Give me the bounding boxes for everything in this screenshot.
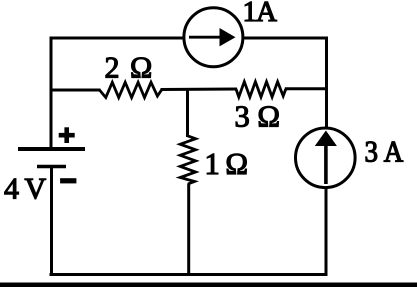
- label 4 V: [5, 179, 46, 199]
- current source I2 arrow: [324, 144, 328, 184]
- current source I1 arrow: [189, 36, 222, 39]
- wire right vertical lower: [325, 186, 328, 276]
- wire middle horizontal right segment: [285, 87, 328, 90]
- resistor R3 1ohm vertical zigzag: [180, 136, 195, 184]
- wire middle vertical lower: [187, 184, 190, 277]
- label 3 ohm: [236, 106, 279, 126]
- wire right vertical upper: [325, 37, 328, 131]
- label 2 ohm: [106, 58, 151, 78]
- wire middle horizontal center segment: [161, 88, 238, 92]
- label 1A: [245, 2, 277, 21]
- resistor R2 3ohm zigzag: [236, 82, 286, 97]
- bottom rule bar: [0, 283, 417, 287]
- wire left vertical upper: [50, 37, 53, 150]
- label 1 ohm: [207, 154, 246, 174]
- wire left vertical lower: [50, 167, 53, 277]
- wire bottom horizontal: [50, 273, 328, 276]
- battery V1 short plate: [37, 165, 66, 169]
- label 3 A: [366, 142, 403, 162]
- current source I2 3A circle: [296, 128, 356, 188]
- battery V1 long plate: [18, 147, 85, 151]
- battery plus sign: [59, 127, 75, 143]
- wire top horizontal: [50, 37, 329, 40]
- wire middle vertical upper: [186, 88, 189, 137]
- resistor R1 2ohm zigzag: [100, 82, 162, 97]
- battery minus sign: [60, 178, 76, 183]
- wire middle horizontal left segment: [50, 89, 101, 92]
- current source I1 1A circle: [184, 8, 243, 67]
